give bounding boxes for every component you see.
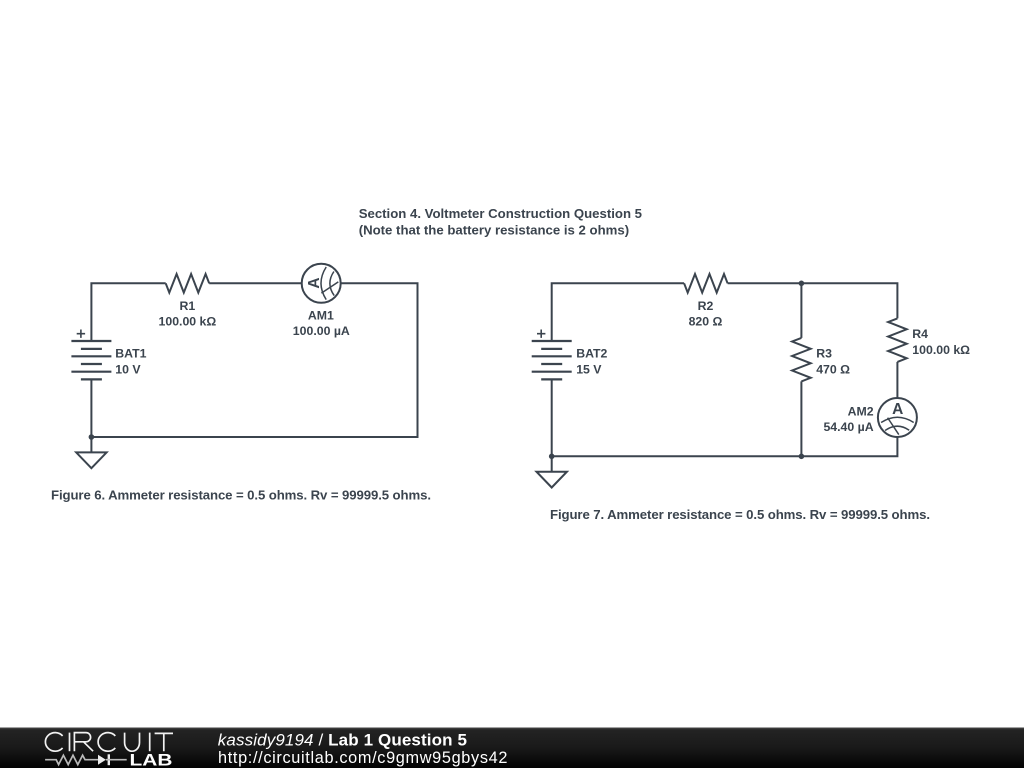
svg-text:kassidy9194 / Lab 1 Question 5: kassidy9194 / Lab 1 Question 5 [218,730,467,749]
node: R3 bottom junction [799,454,805,460]
wire: AM2 bottom along bottom rail to battery [552,437,898,456]
svg-text:470 Ω: 470 Ω [816,362,850,376]
svg-text:100.00 kΩ: 100.00 kΩ [159,315,217,329]
svg-text:R3: R3 [816,347,832,361]
svg-text:100.00 µA: 100.00 µA [293,324,350,338]
node A: R2/R3 junction [799,281,805,287]
svg-text:10 V: 10 V [115,362,141,376]
svg-text:Figure 7. Ammeter resistance =: Figure 7. Ammeter resistance = 0.5 ohms.… [550,507,930,522]
svg-text:Section 4. Voltmeter Construct: Section 4. Voltmeter Construction Questi… [359,206,642,221]
ground: figure7 [537,456,567,487]
polarity plus sign BAT2 [537,330,545,338]
polarity plus sign BAT1 [77,330,85,338]
ammeter AM2 [878,398,917,437]
svg-text:R1: R1 [180,299,196,313]
wire: figure6 battery bottom to ground node [90,380,92,437]
wire: R4 bottom to AM2 [896,362,898,398]
node: figure7 ground junction [549,454,555,460]
footer bar [0,728,1024,768]
logo wordmark CIRCUIT [45,733,173,752]
svg-text:Figure 6. Ammeter resistance =: Figure 6. Ammeter resistance = 0.5 ohms.… [51,488,431,503]
svg-text:R2: R2 [698,299,714,313]
logo diode [98,754,127,765]
wire: figure7 battery top to R2 [552,283,684,341]
resistor R4 [888,318,907,362]
svg-text:BAT2: BAT2 [576,347,607,361]
wire: figure6 top-left from battery top to R1 [91,283,165,341]
wire: node A down to R3 [800,283,802,338]
ground: figure6 [76,437,106,468]
battery BAT1 [71,341,111,379]
wire: R3 bottom to bottom rail [800,381,802,456]
svg-text:http://circuitlab.com/c9gmw95g: http://circuitlab.com/c9gmw95gbys42 [218,749,508,767]
battery BAT2 [532,341,572,379]
node: figure6 ground junction [89,434,95,440]
wire: figure6 from AM1 right, down right side and along bottom [91,283,417,437]
wire: figure6 between R1 and AM1 [209,282,302,284]
svg-text:BAT1: BAT1 [115,347,146,361]
svg-text:AM2: AM2 [848,404,874,418]
svg-text:(Note that the battery resista: (Note that the battery resistance is 2 o… [359,223,629,238]
svg-text:54.40 µA: 54.40 µA [823,420,873,434]
wire: BAT2 bottom to ground node [551,380,553,457]
svg-text:15 V: 15 V [576,362,602,376]
svg-text:LAB: LAB [130,750,173,768]
wire: figure7 from R2 across node A to top-right and down to R4 [728,283,898,318]
ammeter AM1 [302,264,341,303]
resistor R2 [684,274,728,293]
logo resistor squiggle [45,755,98,764]
svg-text:820 Ω: 820 Ω [689,315,723,329]
svg-text:100.00 kΩ: 100.00 kΩ [912,343,970,357]
svg-text:A: A [892,401,903,418]
svg-text:AM1: AM1 [308,308,334,322]
resistor R3 [792,338,811,382]
svg-text:R4: R4 [912,327,928,341]
resistor R1 [166,274,210,293]
